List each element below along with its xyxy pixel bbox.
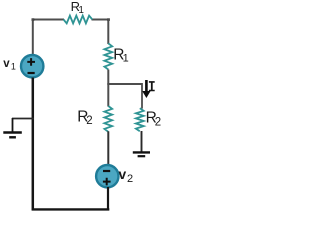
svg-text:2: 2 <box>86 115 92 127</box>
resistor R2 (middle vertical zigzag) <box>104 106 112 132</box>
ground-right long bar <box>133 151 150 153</box>
svg-text:2: 2 <box>127 173 133 185</box>
ground-right short bar <box>138 155 146 157</box>
voltage source v2 <box>96 165 118 187</box>
wire left rail upper <box>32 19 34 56</box>
wire top-right segment <box>92 19 110 21</box>
ground-left short bar <box>9 136 16 138</box>
wire right rail mid <box>107 70 109 107</box>
wire right rail upper <box>107 19 109 45</box>
svg-text:1: 1 <box>78 5 84 16</box>
ground-left stem <box>12 118 14 132</box>
v2 plus sign <box>103 178 111 186</box>
wire mid horizontal <box>107 83 142 85</box>
svg-text:2: 2 <box>155 116 161 128</box>
resistor R1 (right vertical zigzag) <box>104 43 112 69</box>
svg-text:1: 1 <box>11 62 16 72</box>
wire right branch vertical <box>141 83 143 109</box>
node top-right corner <box>107 18 110 21</box>
wire top-left segment <box>32 19 64 21</box>
ground-left connector wire <box>12 118 34 120</box>
resistor R1 (top horizontal zigzag) <box>64 16 93 24</box>
ground-left long bar <box>3 131 22 134</box>
wire bottom <box>32 208 110 210</box>
wire left rail lower <box>32 78 35 211</box>
resistor R2 (right vertical zigzag) <box>136 108 144 131</box>
svg-text:v: v <box>3 58 10 70</box>
v2 minus sign <box>103 170 110 172</box>
current arrow I <box>145 80 148 91</box>
node top-left corner <box>32 18 35 21</box>
svg-text:1: 1 <box>123 52 129 64</box>
voltage source v1 <box>21 55 43 77</box>
wire ground-right stub <box>141 131 143 152</box>
svg-text:v: v <box>119 167 127 182</box>
label I <box>149 81 155 91</box>
wire mid rail between R2 and v2 <box>107 131 109 166</box>
v1 plus sign <box>27 58 35 66</box>
wire below v2 <box>107 187 109 211</box>
v1 minus sign <box>28 72 35 74</box>
